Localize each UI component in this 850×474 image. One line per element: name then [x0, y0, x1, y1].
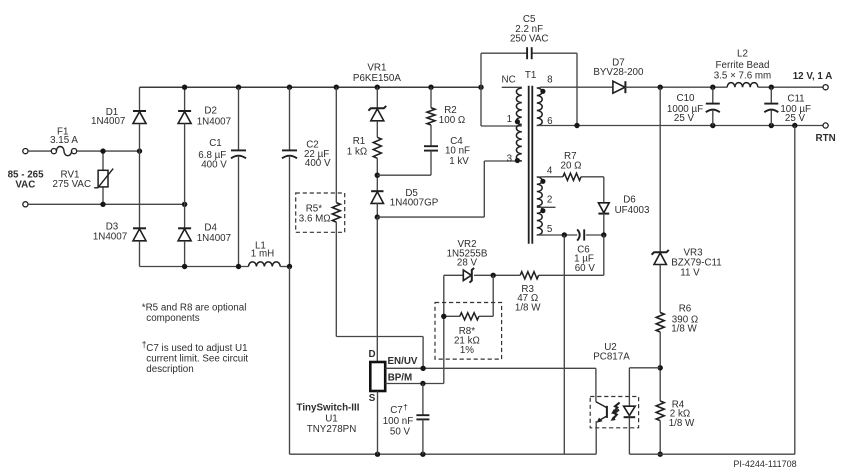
svg-text:100 nF: 100 nF	[383, 416, 414, 427]
svg-text:VR1: VR1	[367, 62, 386, 73]
svg-text:TinySwitch-III: TinySwitch-III	[297, 403, 360, 414]
svg-text:3: 3	[507, 154, 513, 165]
svg-text:275 VAC: 275 VAC	[53, 179, 91, 190]
svg-text:1N4007GP: 1N4007GP	[390, 198, 439, 209]
svg-text:RTN: RTN	[816, 133, 836, 144]
svg-text:BP/M: BP/M	[388, 373, 413, 384]
svg-text:28 V: 28 V	[457, 258, 478, 269]
svg-text:PC817A: PC817A	[593, 352, 630, 363]
svg-text:1/8 W: 1/8 W	[669, 418, 695, 429]
svg-text:*R5 and R8 are optional: *R5 and R8 are optional	[142, 302, 247, 313]
svg-text:description: description	[146, 364, 193, 375]
svg-text:1N4007: 1N4007	[197, 116, 231, 127]
svg-text:P6KE150A: P6KE150A	[353, 73, 401, 84]
svg-text:1N4007: 1N4007	[93, 231, 127, 242]
svg-text:1/8 W: 1/8 W	[515, 302, 541, 313]
svg-text:3.15 A: 3.15 A	[50, 135, 78, 146]
svg-text:T1: T1	[525, 70, 536, 81]
svg-text:UF4003: UF4003	[615, 205, 650, 216]
svg-text:1N4007: 1N4007	[91, 116, 125, 127]
svg-text:C1: C1	[209, 138, 222, 149]
svg-text:3.5 × 7.6 mm: 3.5 × 7.6 mm	[714, 71, 771, 82]
svg-text:20 Ω: 20 Ω	[561, 160, 582, 171]
svg-text:NC: NC	[502, 74, 516, 85]
svg-text:C11: C11	[787, 94, 804, 105]
svg-text:D: D	[368, 349, 375, 360]
svg-text:100 Ω: 100 Ω	[439, 115, 465, 126]
svg-text:C7: C7	[390, 405, 403, 416]
svg-text:25 V: 25 V	[674, 113, 695, 124]
svg-text:2: 2	[547, 194, 552, 205]
svg-text:L2: L2	[737, 49, 748, 60]
svg-text:U1: U1	[325, 413, 338, 424]
svg-text:1: 1	[507, 114, 512, 125]
svg-text:C7 is used to adjust U1: C7 is used to adjust U1	[146, 343, 247, 354]
svg-text:4: 4	[547, 166, 553, 177]
svg-text:Ferrite Bead: Ferrite Bead	[716, 60, 770, 71]
svg-text:1 kV: 1 kV	[449, 156, 469, 167]
svg-text:25 V: 25 V	[785, 113, 806, 124]
svg-text:C10: C10	[677, 93, 696, 104]
svg-text:50 V: 50 V	[390, 427, 411, 438]
svg-text:6: 6	[547, 116, 553, 127]
svg-text:BYV28-200: BYV28-200	[593, 67, 644, 78]
svg-text:current limit. See circuit: current limit. See circuit	[146, 353, 248, 364]
svg-text:VAC: VAC	[15, 180, 35, 191]
svg-text:3.6 MΩ: 3.6 MΩ	[299, 214, 331, 225]
svg-text:TNY278PN: TNY278PN	[307, 424, 357, 435]
svg-text:R6: R6	[679, 304, 692, 315]
svg-text:1N4007: 1N4007	[197, 233, 231, 244]
svg-text:1 kΩ: 1 kΩ	[347, 147, 367, 158]
svg-text:8: 8	[547, 75, 553, 86]
svg-text:12 V, 1 A: 12 V, 1 A	[793, 71, 833, 82]
svg-text:S: S	[369, 393, 376, 404]
svg-text:EN/UV: EN/UV	[388, 356, 418, 367]
svg-text:60 V: 60 V	[575, 263, 596, 274]
svg-text:C5: C5	[523, 14, 536, 25]
svg-text:1/8 W: 1/8 W	[671, 324, 697, 335]
svg-text:11 V: 11 V	[680, 268, 700, 279]
svg-text:400 V: 400 V	[201, 160, 227, 171]
svg-text:D4: D4	[204, 223, 217, 234]
svg-text:1%: 1%	[460, 345, 474, 356]
svg-text:PI-4244-111708: PI-4244-111708	[733, 459, 796, 469]
svg-text:5: 5	[547, 224, 553, 235]
svg-text:†: †	[403, 402, 408, 412]
svg-text:1 mH: 1 mH	[251, 249, 274, 260]
svg-text:400 V: 400 V	[305, 158, 331, 169]
svg-text:10 nF: 10 nF	[445, 146, 470, 157]
svg-text:250 VAC: 250 VAC	[510, 33, 548, 44]
svg-text:D2: D2	[204, 105, 217, 116]
svg-text:components: components	[146, 313, 199, 324]
